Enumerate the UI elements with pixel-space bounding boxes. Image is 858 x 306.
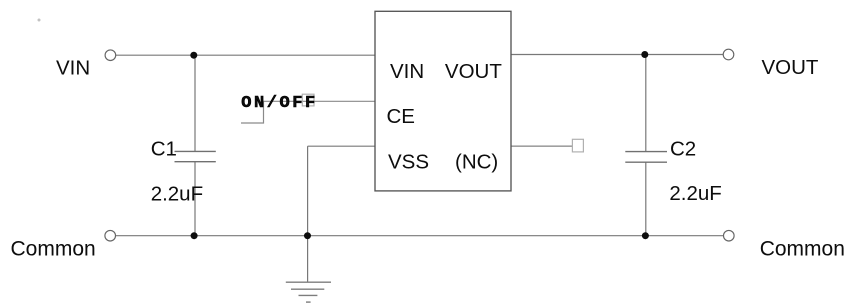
wire common rail	[116, 235, 723, 237]
wire VSS vertical	[307, 146, 309, 236]
wire ground vertical	[307, 236, 309, 282]
terminal VIN	[105, 50, 116, 61]
wire C1 vertical bottom	[194, 162, 196, 236]
terminal VOUT	[723, 49, 734, 60]
wire C2 vertical top	[645, 55, 647, 152]
terminal Common left	[105, 230, 116, 241]
node junction top-right	[641, 51, 648, 58]
capacitor C1	[175, 151, 216, 161]
node junction bottom C1	[191, 232, 198, 239]
svg-text:VSS: VSS	[388, 151, 429, 174]
svg-text:VOUT: VOUT	[445, 60, 502, 83]
svg-text:ON/OFF: ON/OFF	[241, 94, 318, 113]
op-amp U1 regulator body	[375, 11, 511, 191]
svg-text:2.2uF: 2.2uF	[151, 182, 203, 205]
node marker square NC	[572, 139, 583, 152]
svg-text:Common: Common	[11, 238, 96, 261]
wire VIN rail	[116, 54, 375, 56]
svg-text:VIN: VIN	[56, 57, 90, 80]
wire C1 vertical top	[194, 55, 196, 151]
wire VSS horizontal	[308, 145, 375, 147]
node junction top-left	[190, 52, 197, 59]
node junction bottom ground	[304, 232, 311, 239]
wire NC stub	[511, 145, 572, 147]
svg-text:CE: CE	[387, 105, 415, 128]
svg-text:(NC): (NC)	[455, 151, 498, 174]
node marker square ON/OFF	[302, 94, 314, 106]
svg-text:Common: Common	[760, 238, 845, 261]
svg-text:VOUT: VOUT	[762, 56, 819, 79]
terminal Common right	[724, 230, 735, 241]
wire VOUT rail	[511, 54, 723, 56]
wire C2 vertical bottom	[645, 162, 647, 236]
capacitor C2	[625, 152, 667, 163]
svg-text:C1: C1	[151, 138, 177, 161]
speck artifact	[38, 19, 41, 22]
svg-text:C2: C2	[670, 138, 696, 161]
wire CE (ON/OFF) polyline	[241, 101, 375, 123]
ground	[286, 282, 331, 302]
svg-text:2.2uF: 2.2uF	[669, 182, 721, 205]
svg-text:VIN: VIN	[390, 60, 424, 83]
node junction bottom C2	[642, 232, 649, 239]
